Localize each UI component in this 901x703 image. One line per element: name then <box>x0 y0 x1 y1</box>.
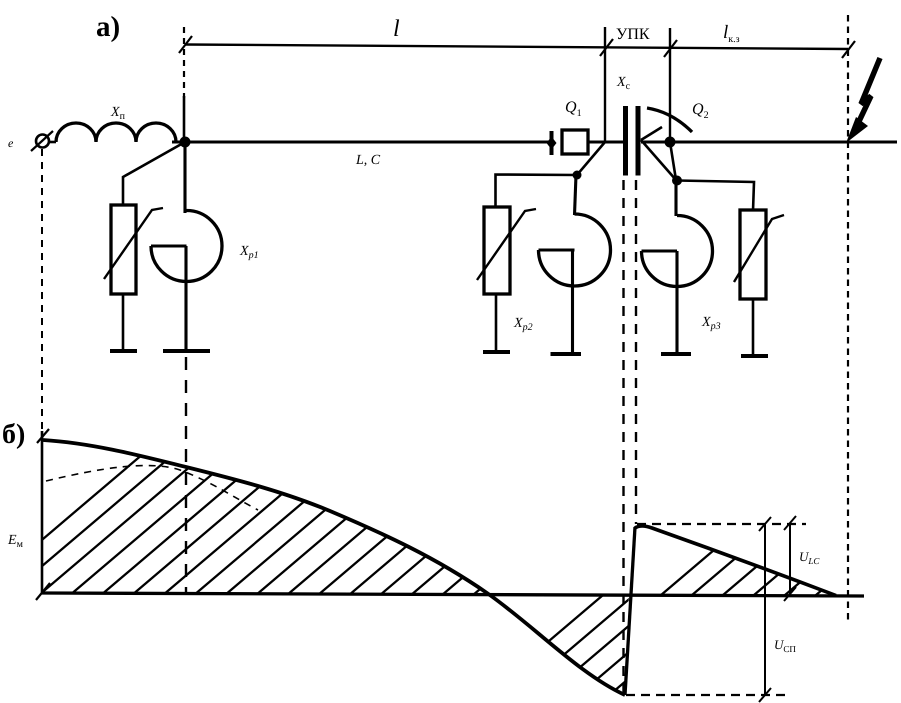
reactor Xp1 top lead <box>183 142 186 213</box>
dim tick left <box>179 36 192 53</box>
reactor Xp3 bottom lead <box>675 251 678 354</box>
dashed line below ground x=186 <box>185 357 187 593</box>
tick U_SP top <box>759 517 771 531</box>
faint dashed inner curve <box>46 466 258 510</box>
y-axis <box>41 431 44 594</box>
dimension line <box>185 45 848 50</box>
dashed below left plate <box>622 180 624 694</box>
reactor Xp1 bottom lead <box>184 246 187 351</box>
inductor Xп coil <box>56 123 176 142</box>
origin slash tick <box>36 583 50 600</box>
reactor Xp1 arc <box>151 211 222 282</box>
wire Q1 to capacitor <box>588 140 625 143</box>
reactor Xp2 bottom lead <box>571 250 574 354</box>
reactor Xp2 top lead <box>575 175 577 215</box>
arrow U_LC <box>789 523 791 595</box>
wire circle to coil <box>48 141 56 144</box>
svg-text:L, C: L, C <box>355 153 381 168</box>
wire node to arrester 2 <box>496 142 606 208</box>
ground arrester R2 <box>483 350 510 354</box>
dashed fault line x=848 <box>847 15 849 624</box>
tick U_LC top <box>784 516 796 530</box>
breaker Q1 <box>562 130 588 154</box>
dashed level line top <box>637 523 806 525</box>
arrow barb <box>641 127 662 140</box>
y-axis arrow tick <box>37 429 49 443</box>
node at Xp3 junction <box>672 176 682 186</box>
dashed below right plate <box>635 180 637 524</box>
breaker Q2 arc <box>647 108 692 132</box>
x-axis <box>42 593 864 596</box>
capacitor Xc right plate <box>636 106 641 176</box>
source circle <box>36 135 49 148</box>
wire node to dim at x=185 <box>183 96 186 144</box>
main line right section <box>641 140 897 143</box>
reactor Xp3 arc <box>642 216 713 287</box>
UPK right boundary vertical <box>669 28 671 143</box>
tick U_SP bottom <box>759 688 771 702</box>
arrester R3 varistor slash <box>734 215 784 282</box>
capacitor Xc left plate <box>623 106 628 176</box>
voltage curve main <box>43 440 625 695</box>
arrow U_SP <box>764 524 766 695</box>
node at x=670 <box>665 137 676 148</box>
ground reactor Xp2 <box>551 352 582 356</box>
hatching lobe 2 <box>456 23 901 703</box>
arrester R2 bottom lead <box>495 294 498 352</box>
slash through source circle <box>31 131 53 151</box>
reactor Xp3 center tap <box>642 249 678 252</box>
arrester R1 body <box>111 205 136 294</box>
svg-text:e: e <box>8 136 14 150</box>
ground arrester R1 <box>110 349 137 353</box>
ground arrester R3 <box>741 354 768 358</box>
dim tick at UPK left <box>600 39 613 56</box>
ground reactor Xp3 <box>661 352 691 356</box>
arrester R1 bottom lead <box>122 294 125 351</box>
reactor Xp2 center tap <box>539 248 575 251</box>
wire junction to arrester 3 <box>677 181 754 212</box>
reactor Xp2 arc <box>539 214 611 286</box>
wire node to Xp3 junction <box>670 142 676 180</box>
tick U_LC bottom <box>784 587 796 601</box>
arrester R1 varistor slash <box>104 208 163 279</box>
dashed line above node at x=185 <box>183 27 185 98</box>
svg-text:б): б) <box>2 419 25 450</box>
ground reactor Xp1 <box>163 349 210 353</box>
lightning arrowhead <box>846 117 868 143</box>
hatching lobe 3 <box>514 23 901 703</box>
node at x=185 <box>180 137 191 148</box>
voltage curve after UPK <box>635 526 836 596</box>
main line left section <box>172 140 549 143</box>
dashed line below source x=42 <box>41 149 43 431</box>
dim tick at UPK right <box>664 40 677 57</box>
arrester R3 body <box>740 210 766 299</box>
arrester R2 body <box>484 207 510 294</box>
arrester R3 bottom lead <box>752 299 755 356</box>
tick mark before Q1 <box>550 131 554 155</box>
arrow line capacitor to Xp3 junction <box>641 140 676 180</box>
arrester R2 varistor slash <box>477 209 536 280</box>
reactor Xp1 center tap <box>151 244 187 247</box>
dashed level line bottom <box>626 694 786 696</box>
wire node to arrester 1 <box>123 142 185 206</box>
node at Xp2 junction <box>573 171 582 180</box>
svg-text:a): a) <box>96 11 120 43</box>
dim tick right <box>842 41 855 58</box>
svg-text:УПК: УПК <box>616 26 650 43</box>
reactor Xp3 top lead <box>674 180 677 216</box>
lightning bolt <box>853 58 880 134</box>
svg-text:l: l <box>393 16 400 42</box>
diamond blob on wire <box>547 137 557 150</box>
voltage jump at capacitor <box>625 527 635 695</box>
UPK left boundary vertical <box>604 27 606 143</box>
